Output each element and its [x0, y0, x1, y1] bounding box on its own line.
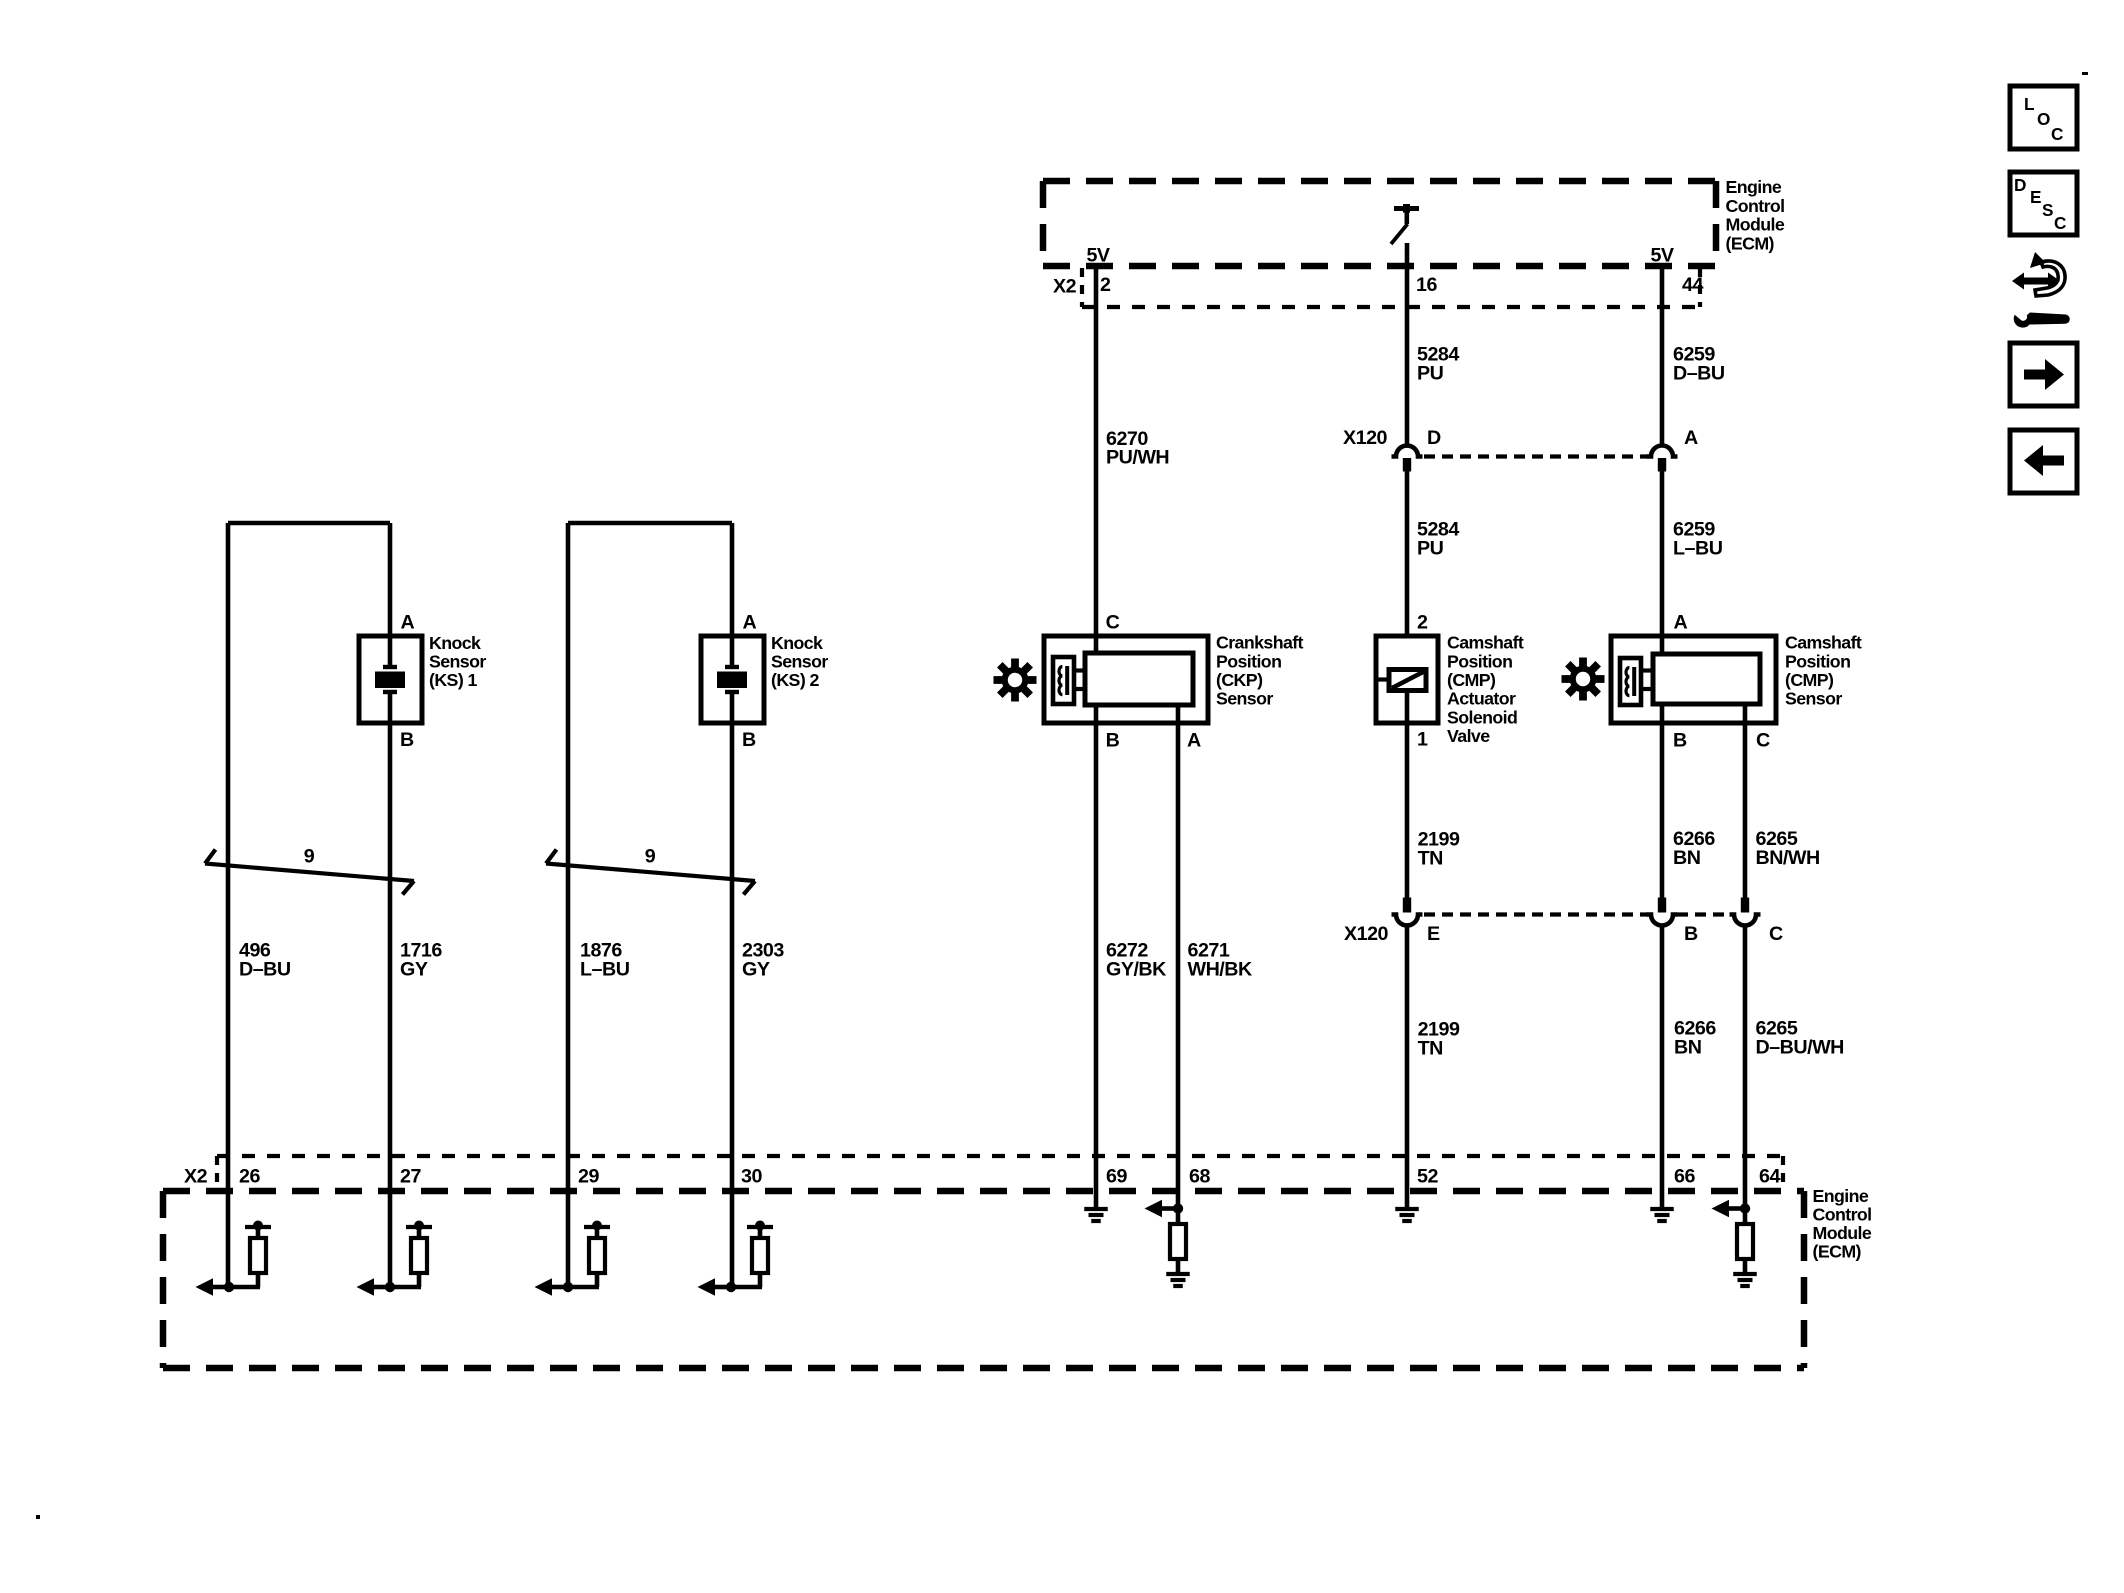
wire 1716 GY (KS1 B down) [388, 721, 393, 1287]
svg-text:Position: Position [1447, 651, 1512, 671]
svg-text:S: S [2042, 200, 2053, 220]
svg-text:X2: X2 [1053, 276, 1077, 298]
ground at ECM pin 66 [1650, 1209, 1674, 1221]
svg-text:30: 30 [741, 1165, 762, 1187]
svg-text:Camshaft: Camshaft [1785, 633, 1862, 653]
label Knock Sensor (KS) 1 [429, 633, 486, 690]
svg-text:5V: 5V [1650, 245, 1673, 267]
wire 6266 BN (CMP B to X120 B) [1660, 704, 1665, 898]
svg-text:PU: PU [1417, 363, 1444, 385]
label 1716 GY [400, 939, 442, 980]
svg-text:44: 44 [1682, 274, 1703, 296]
camshaft position actuator solenoid valve [1376, 636, 1438, 723]
ground at ECM pin 69 [1084, 1209, 1108, 1221]
svg-text:C: C [1106, 612, 1120, 634]
reluctor wheel (CKP) [994, 659, 1037, 702]
switch (CKP output driver) inside ECM [1391, 204, 1419, 244]
svg-text:Control: Control [1813, 1205, 1872, 1225]
svg-text:26: 26 [239, 1165, 260, 1187]
label 6265 BN/WH upper [1756, 828, 1820, 869]
ECM internal pull-up at pin 26 [196, 1221, 272, 1296]
svg-text:D–BU: D–BU [1673, 363, 1725, 385]
page mark top right [2082, 72, 2088, 75]
svg-text:Crankshaft: Crankshaft [1216, 633, 1304, 653]
knock sensor KS2 harness loop [568, 523, 732, 1287]
label 2303 GY [742, 939, 784, 980]
svg-text:E: E [2030, 187, 2041, 207]
wire 2199 TN (X120 E to pin 52) [1405, 926, 1410, 1207]
label 5284 PU upper [1417, 344, 1459, 385]
label Engine Control Module (ECM) top [1726, 177, 1785, 253]
svg-text:Control: Control [1726, 196, 1785, 216]
wire 6259 L-BU (X120 A to CMP A) [1660, 470, 1665, 654]
svg-text:9: 9 [304, 845, 315, 867]
svg-text:2: 2 [1100, 274, 1111, 296]
svg-text:27: 27 [400, 1165, 421, 1187]
svg-text:TN: TN [1418, 1038, 1443, 1060]
svg-text:68: 68 [1189, 1165, 1210, 1187]
svg-text:O: O [2037, 109, 2050, 129]
svg-text:Sensor: Sensor [1216, 689, 1273, 709]
svg-text:A: A [1674, 612, 1688, 634]
svg-text:Sensor: Sensor [1785, 689, 1842, 709]
svg-text:69: 69 [1106, 1165, 1127, 1187]
svg-text:Engine: Engine [1813, 1186, 1869, 1206]
svg-text:Sensor: Sensor [771, 652, 828, 672]
wire 6270 PU/WH (pin 2 to CKP C) [1094, 266, 1099, 653]
svg-text:Position: Position [1216, 651, 1281, 671]
svg-text:D–BU: D–BU [239, 958, 291, 980]
svg-text:(CMP): (CMP) [1447, 670, 1496, 690]
knock sensor KS 1 (piezo element) [359, 636, 422, 723]
X120 row2 mating dashed line B-C [1677, 912, 1731, 916]
svg-text:BN: BN [1674, 1037, 1701, 1059]
harness marker 9 (KS2 pair) [546, 850, 755, 895]
svg-text:B: B [1684, 923, 1698, 945]
icon swap/repair (arrows and wrench) [2012, 252, 2070, 328]
wire 6259 D-BU (pin 44 to X120 A) [1660, 266, 1665, 446]
svg-text:L–BU: L–BU [580, 958, 630, 980]
connector X120 cavity B [1647, 898, 1678, 926]
ECM bottom dashed box (Engine Control Module) [163, 1191, 1804, 1368]
wire CKP C inside [1094, 638, 1099, 653]
svg-text:Camshaft: Camshaft [1447, 633, 1524, 653]
wire 6265 D-BU/WH (X120 C to pin 64) [1743, 926, 1748, 1209]
svg-text:X120: X120 [1343, 427, 1388, 449]
svg-text:C: C [2051, 124, 2063, 144]
wire 6265 BN/WH (CMP C to X120 C) [1743, 704, 1748, 898]
label 6266 BN upper [1673, 828, 1715, 869]
svg-text:Solenoid: Solenoid [1447, 707, 1517, 727]
svg-text:GY: GY [742, 958, 770, 980]
label 6270 PU/WH [1106, 428, 1169, 469]
connector X120 cavity A [1647, 446, 1678, 472]
svg-text:(CMP): (CMP) [1785, 670, 1834, 690]
svg-text:A: A [1187, 729, 1201, 751]
svg-text:52: 52 [1417, 1165, 1438, 1187]
svg-text:PU: PU [1417, 538, 1444, 560]
label Camshaft Position (CMP) Sensor [1785, 633, 1862, 709]
svg-text:TN: TN [1418, 848, 1443, 870]
svg-text:Valve: Valve [1447, 726, 1490, 746]
crankshaft position sensor body [1044, 636, 1208, 723]
svg-text:BN/WH: BN/WH [1756, 847, 1820, 869]
svg-text:1: 1 [1417, 729, 1428, 751]
wire 2303 GY (KS2 B down) [730, 721, 735, 1287]
X120 row1 mating dashed line [1424, 454, 1648, 458]
svg-text:C: C [1769, 923, 1783, 945]
ECM internal pull-down at pin 68 [1145, 1200, 1190, 1286]
svg-text:Knock: Knock [429, 633, 481, 653]
svg-text:Module: Module [1726, 215, 1785, 235]
svg-text:(ECM): (ECM) [1726, 233, 1775, 253]
svg-text:C: C [1756, 729, 1770, 751]
svg-text:A: A [743, 612, 757, 634]
svg-text:Knock: Knock [771, 633, 823, 653]
label Engine Control Module (ECM) bottom [1813, 1186, 1872, 1262]
svg-text:Position: Position [1785, 651, 1850, 671]
svg-text:D–BU/WH: D–BU/WH [1756, 1037, 1844, 1059]
ECM internal pull-up at pin 27 [357, 1221, 433, 1296]
svg-text:(CKP): (CKP) [1216, 670, 1263, 690]
label Crankshaft Position (CKP) Sensor [1216, 633, 1304, 709]
connector X120 cavity E [1392, 898, 1423, 926]
label 5284 PU lower [1417, 519, 1459, 560]
svg-text:A: A [401, 612, 415, 634]
ECM internal pull-down at pin 64 [1712, 1200, 1757, 1286]
icon back (left arrow) button [2010, 430, 2077, 493]
CKP pickup element [1053, 657, 1074, 704]
svg-text:9: 9 [645, 845, 656, 867]
label 496 D-BU [239, 939, 291, 980]
svg-text:B: B [1673, 729, 1687, 751]
wire CMP A inside [1660, 638, 1665, 654]
svg-text:PU/WH: PU/WH [1106, 447, 1169, 469]
icon next (right arrow) button [2010, 343, 2077, 406]
label 2199 TN lower [1418, 1019, 1460, 1060]
ECM X2 connector row (bottom) [217, 1156, 1783, 1190]
ECM X2 connector row (top) [1082, 268, 1700, 307]
CMP pickup element [1620, 658, 1641, 705]
label 6266 BN lower [1674, 1018, 1716, 1059]
wire 6271 WH/BK (CKP A to pin 68) [1176, 705, 1181, 1209]
icon DESC button [2010, 172, 2077, 235]
svg-text:5V: 5V [1086, 245, 1109, 267]
reluctor wheel (CMP) [1562, 658, 1605, 701]
svg-text:66: 66 [1674, 1165, 1695, 1187]
svg-text:29: 29 [578, 1165, 599, 1187]
label 6259 L-BU [1673, 519, 1723, 560]
svg-text:GY: GY [400, 958, 428, 980]
svg-text:D: D [1427, 427, 1441, 449]
X120 row2 mating dashed line E-B [1424, 912, 1648, 916]
svg-text:C: C [2054, 213, 2066, 233]
svg-text:X120: X120 [1344, 923, 1389, 945]
label 6259 D-BU [1673, 344, 1725, 385]
svg-text:Sensor: Sensor [429, 652, 486, 672]
ECM internal pull-up at pin 29 [535, 1221, 611, 1296]
wire 5284 PU (switch to X120 D) [1405, 243, 1410, 446]
svg-text:Engine: Engine [1726, 177, 1782, 197]
page mark bottom left [36, 1515, 40, 1519]
svg-text:Module: Module [1813, 1223, 1872, 1243]
svg-text:GY/BK: GY/BK [1106, 958, 1167, 980]
svg-text:X2: X2 [184, 1165, 208, 1187]
svg-text:L–BU: L–BU [1673, 538, 1723, 560]
label 6271 WH/BK [1188, 939, 1253, 980]
svg-text:64: 64 [1759, 1165, 1780, 1187]
ECM top dashed box (Engine Control Module) [1043, 181, 1716, 266]
svg-text:D: D [2014, 175, 2026, 195]
label 2199 TN upper [1418, 829, 1460, 870]
knock sensor KS1 harness loop [228, 523, 390, 1287]
wire 6272 GY/BK (CKP B to pin 69) [1094, 705, 1099, 1207]
svg-text:B: B [742, 729, 756, 751]
wire 2199 TN (valve 1 to X120 E) [1405, 690, 1410, 898]
svg-text:BN: BN [1673, 847, 1700, 869]
label 6272 GY/BK [1106, 939, 1167, 980]
svg-text:B: B [400, 729, 414, 751]
label 6265 D-BU/WH lower [1756, 1018, 1844, 1059]
harness marker 9 (KS1 pair) [205, 850, 414, 895]
knock sensor KS 2 (piezo element) [701, 636, 764, 723]
wire 6266 BN (X120 B to pin 66) [1660, 926, 1665, 1207]
svg-text:L: L [2024, 94, 2035, 114]
icon LOC button [2010, 86, 2077, 149]
ground at ECM pin 52 [1395, 1209, 1419, 1221]
svg-text:A: A [1684, 427, 1698, 449]
label Knock Sensor (KS) 2 [771, 633, 828, 690]
svg-text:(ECM): (ECM) [1813, 1242, 1862, 1262]
wire 5284 PU (X120 D to valve pin 2) [1405, 470, 1410, 670]
connector X120 cavity C [1730, 898, 1761, 926]
svg-text:WH/BK: WH/BK [1188, 958, 1253, 980]
svg-text:16: 16 [1416, 274, 1437, 296]
svg-text:2: 2 [1417, 612, 1428, 634]
connector X120 cavity D [1392, 446, 1423, 472]
label Camshaft Position (CMP) Actuator Solenoid Valve [1447, 633, 1524, 747]
svg-text:E: E [1427, 923, 1440, 945]
label 1876 L-BU [580, 939, 630, 980]
camshaft position sensor body [1611, 636, 1776, 723]
ECM internal pull-up at pin 30 [698, 1221, 774, 1296]
svg-text:B: B [1106, 729, 1120, 751]
svg-text:Actuator: Actuator [1447, 689, 1516, 709]
svg-text:(KS) 1: (KS) 1 [429, 670, 477, 690]
svg-text:(KS) 2: (KS) 2 [771, 670, 819, 690]
